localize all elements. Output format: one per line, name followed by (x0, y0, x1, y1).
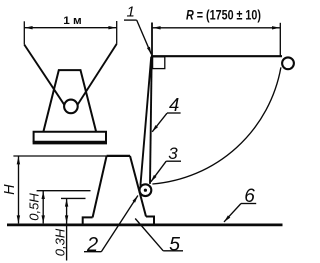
rod tilted position (140, 57, 151, 186)
rod horizontal position (arm) (151, 55, 282, 57)
svg-text:R = (1750 ± 10): R = (1750 ± 10) (186, 7, 261, 22)
H top extension line (13, 155, 106, 157)
leader 4 (152, 113, 167, 132)
svg-text:4: 4 (169, 94, 179, 115)
svg-text:5: 5 (169, 233, 180, 255)
rope right (78, 44, 117, 105)
leader 1 (137, 20, 152, 54)
svg-text:0,3H: 0,3H (53, 228, 68, 256)
leader 3 (151, 161, 166, 182)
0.5H arrow up (42, 191, 45, 199)
dimension line 1 m (24, 27, 116, 29)
swing arc (152, 67, 281, 184)
svg-text:0,5H: 0,5H (27, 193, 42, 221)
stand right step (146, 217, 154, 225)
hinge center dot (144, 189, 147, 192)
0.3H tick line (61, 197, 86, 199)
R right extension line (279, 23, 281, 57)
leader 2 (101, 196, 138, 252)
R arrow left (153, 26, 161, 29)
bag base plate (34, 132, 106, 143)
0.5H dimension line (42, 191, 44, 223)
dimension arrow left (25, 26, 33, 29)
H dimension line (18, 156, 20, 223)
0.3H dimension line (66, 199, 68, 261)
bag trapezoid (44, 70, 97, 131)
svg-text:1 м: 1 м (63, 15, 82, 27)
leader 6 (224, 204, 241, 222)
svg-text:3: 3 (168, 144, 178, 163)
leader 5 (135, 219, 163, 251)
R left extension line (151, 23, 153, 57)
0.5H arrow down (42, 215, 45, 223)
R arrow right (272, 26, 280, 29)
stand top edge (107, 155, 130, 157)
H arrow down (17, 215, 20, 223)
dimension arrow right (108, 26, 116, 29)
svg-text:H: H (2, 184, 18, 195)
right angle square (153, 57, 165, 69)
0.3H arrow up (65, 199, 68, 207)
right anchor extension tick (116, 21, 118, 44)
ball at arm end (282, 57, 294, 69)
0.3H arrow down (65, 215, 68, 223)
ground line (7, 223, 283, 226)
stand right side (130, 156, 146, 217)
hinge ball circle (140, 184, 152, 196)
suspension ring (64, 100, 78, 114)
rope left (24, 45, 64, 105)
svg-text:2: 2 (86, 234, 98, 256)
svg-text:1: 1 (127, 3, 135, 20)
R dimension line (152, 27, 280, 29)
bag base plate bottom edge (33, 141, 107, 145)
left anchor extension tick (23, 21, 25, 44)
0.5H tick line (37, 190, 91, 192)
stand left step (83, 217, 93, 224)
rod vertical position (150, 56, 152, 184)
H arrow up (17, 156, 20, 164)
stand left side (93, 156, 107, 218)
